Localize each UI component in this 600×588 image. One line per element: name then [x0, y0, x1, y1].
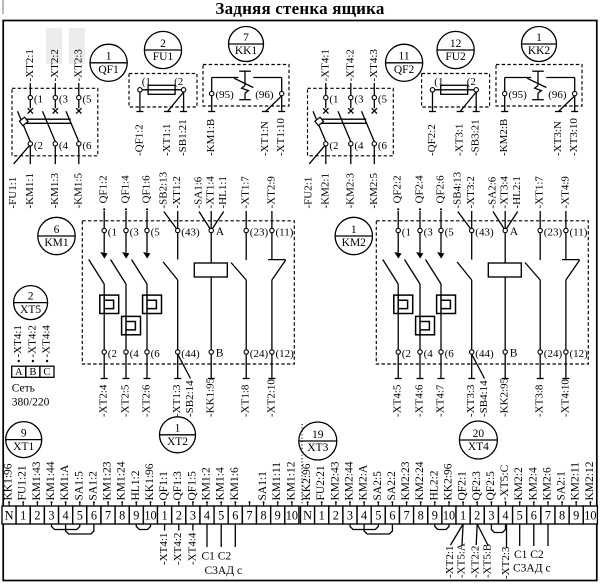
thermal relay KK1 dashed outline	[203, 65, 289, 107]
svg-text:Задняя стенка ящика: Задняя стенка ящика	[215, 0, 385, 18]
KM2 auxiliary NO contact 43-44	[457, 226, 494, 360]
jumper XT4:3-XT4:4	[491, 524, 505, 533]
KM2 lower terminal (4)	[418, 335, 433, 360]
QF1 pole 3 fixed contact (5)	[76, 94, 92, 114]
svg-text:QF1:6: QF1:6	[141, 175, 153, 204]
circuit breaker QF1 dashed outline	[12, 88, 98, 156]
svg-text:-SB1:21: -SB1:21	[177, 119, 189, 156]
svg-text:A: A	[216, 226, 225, 238]
svg-text:(5: (5	[378, 94, 388, 106]
svg-text:HL1:2: HL1:2	[130, 470, 142, 500]
svg-text:(24): (24)	[250, 348, 269, 360]
terminal strip XT2 (positional circle)	[160, 417, 196, 453]
svg-text:7: 7	[545, 509, 551, 523]
svg-text:-KM2:5: -KM2:5	[368, 173, 380, 209]
svg-text:-XT3:2: -XT3:2	[465, 176, 477, 208]
svg-text:QF2:6: QF2:6	[435, 175, 447, 204]
wires XT2:1-3 to XT4 and labels	[158, 524, 198, 565]
svg-text:12: 12	[450, 38, 462, 50]
svg-text:(11): (11)	[276, 226, 294, 238]
svg-text:-XT4:5: -XT4:5	[392, 384, 404, 417]
terminal strip XT1 / XT2	[2, 506, 299, 524]
svg-text:(1: (1	[434, 76, 443, 88]
svg-text:(23): (23)	[544, 226, 563, 238]
wire FU1:1 to QF1:2	[139, 92, 141, 112]
svg-text:(11): (11)	[570, 226, 588, 238]
svg-text:4: 4	[361, 509, 367, 523]
wire KK1:96 to XT1:10	[281, 96, 283, 112]
svg-text:(2: (2	[402, 348, 411, 360]
KM1 auxiliary NO contact 23-24	[231, 226, 268, 360]
jumper XT1:3-XT1:5	[52, 524, 80, 530]
svg-text:SA2:5: SA2:5	[372, 471, 384, 501]
svg-text:(2: (2	[108, 348, 117, 360]
svg-text:-KM1:5: -KM1:5	[72, 173, 84, 209]
svg-text:QF1:5: QF1:5	[186, 471, 198, 501]
QF1 pole 2 lower terminal (4)	[53, 140, 68, 164]
KM1 coil A-B	[194, 226, 227, 360]
KM1 main contact 5-6	[132, 226, 161, 295]
svg-text:7: 7	[243, 32, 249, 44]
svg-text:-XT4:2: -XT4:2	[172, 533, 184, 565]
svg-text:(1: (1	[402, 226, 411, 238]
svg-text:4: 4	[204, 509, 210, 523]
svg-text:С1 С2: С1 С2	[514, 549, 544, 561]
QF1 pole 1 moving blade	[18, 111, 31, 141]
svg-text:-SB4:13: -SB4:13	[451, 171, 463, 208]
svg-text:8: 8	[261, 509, 267, 523]
svg-text:2: 2	[176, 509, 182, 523]
wire FU1:2 to XT1:1	[168, 92, 184, 112]
svg-text:-XT3:1: -XT3:1	[454, 124, 466, 156]
svg-text:(6: (6	[151, 348, 161, 360]
svg-text:(44): (44)	[181, 348, 200, 360]
KM2 main contact 3-4	[405, 226, 434, 316]
svg-text:QF1:4: QF1:4	[120, 175, 132, 204]
svg-text:(2: (2	[329, 140, 338, 152]
svg-text:-SB3:21: -SB3:21	[470, 119, 482, 156]
svg-text:11: 11	[399, 51, 410, 63]
svg-text:(4: (4	[130, 348, 140, 360]
svg-text:HL2:2: HL2:2	[428, 470, 440, 500]
svg-text:N: N	[303, 509, 312, 523]
terminal strip XT3 (positional circle)	[299, 422, 337, 460]
fuse FU1 symbol with terminals (1,(2	[138, 76, 186, 94]
svg-text:2: 2	[160, 38, 166, 50]
QF1 pole 3 lower terminal (6)	[77, 140, 92, 164]
svg-text:3: 3	[488, 509, 494, 523]
terminal stubs and wire labels above strip XT3/XT4	[301, 461, 596, 506]
KM1 thermal element pole 2	[122, 316, 141, 334]
svg-text:-XT4:4: -XT4:4	[41, 325, 53, 358]
svg-text:-XT4:1: -XT4:1	[319, 49, 331, 81]
wire FU2:2 to XT3:1	[460, 92, 476, 112]
svg-text:20: 20	[473, 428, 485, 440]
labels of wires leaving QF2	[303, 173, 380, 209]
KM1 lower terminal (6)	[145, 314, 160, 361]
svg-text:5: 5	[375, 509, 381, 523]
phase designation boxes A B C	[12, 366, 54, 378]
svg-text:-XT3:10: -XT3:10	[568, 118, 580, 156]
svg-text:9: 9	[573, 509, 579, 523]
svg-text:-XT1:7: -XT1:7	[240, 176, 252, 209]
KM1 lower terminal (4)	[124, 335, 139, 360]
wires and labels entering KM1 from above	[98, 171, 278, 228]
QF1 pole 1 fixed contact (1)	[28, 94, 43, 114]
svg-text:6: 6	[531, 509, 537, 523]
svg-text:SA2:2: SA2:2	[386, 471, 398, 501]
svg-text:5: 5	[218, 509, 224, 523]
svg-text:XT1: XT1	[13, 441, 34, 453]
svg-text:-XT1:4: -XT1:4	[205, 176, 217, 209]
svg-text:FU2: FU2	[445, 51, 466, 63]
svg-text:-XT2:2: -XT2:2	[49, 49, 61, 81]
svg-text:-XT1:8: -XT1:8	[240, 384, 252, 417]
svg-text:4: 4	[502, 509, 508, 523]
svg-text:-XT4:6: -XT4:6	[414, 384, 426, 417]
svg-text:XT5: XT5	[20, 304, 41, 316]
svg-text:-SA1:6: -SA1:6	[193, 176, 205, 208]
svg-text:(2: (2	[34, 140, 43, 152]
svg-text:-XT3:4: -XT3:4	[499, 176, 511, 209]
svg-text:KM2: KM2	[342, 237, 367, 249]
thermal relay KK2 NC contact (95)-(96)	[503, 71, 577, 101]
svg-text:(3: (3	[354, 94, 364, 106]
svg-text:(43): (43)	[475, 226, 494, 238]
svg-text:KM1:24: KM1:24	[116, 461, 128, 500]
svg-text:QF1: QF1	[98, 64, 119, 76]
svg-text:-XT1:2: -XT1:2	[171, 176, 183, 208]
svg-text:-XT2:4: -XT2:4	[98, 384, 110, 417]
KM1 main contact 1-2	[89, 226, 117, 295]
svg-text:-SB2:13: -SB2:13	[157, 171, 169, 208]
svg-text:KK1:96: KK1:96	[144, 463, 156, 500]
wires XT2:4-6 to motor windings C1 C2 C3	[202, 524, 243, 577]
QF1 mechanical trip linkage bar	[19, 117, 70, 125]
svg-text:1: 1	[175, 423, 181, 435]
svg-text:1: 1	[20, 509, 26, 523]
contactor KM1 dashed outline	[82, 221, 294, 364]
jumper XT1:4-XT1:6	[66, 524, 94, 534]
svg-text:-XT4:4: -XT4:4	[186, 532, 198, 565]
svg-text:KM2:4: KM2:4	[527, 467, 539, 500]
KM2 lower terminal (2)	[396, 314, 411, 361]
svg-text:XT4: XT4	[468, 441, 489, 453]
svg-text:(96): (96)	[255, 89, 274, 101]
svg-text:1: 1	[319, 509, 325, 523]
svg-text:-XT4:10: -XT4:10	[559, 379, 571, 417]
svg-text:-XT1:7: -XT1:7	[534, 176, 546, 209]
wire KK2:95 to KM2:B	[504, 96, 506, 112]
svg-text:QF2:4: QF2:4	[414, 175, 426, 204]
svg-text:(1: (1	[142, 76, 151, 88]
svg-text:KK1: KK1	[235, 45, 258, 57]
svg-text:6: 6	[54, 224, 60, 236]
svg-text:KM1:44: KM1:44	[45, 461, 57, 500]
svg-text:-XT1:10: -XT1:10	[275, 118, 287, 156]
KM2 thermal element pole 3	[437, 295, 456, 313]
svg-text:-HL1:1: -HL1:1	[217, 176, 229, 208]
svg-text:QF2:5: QF2:5	[485, 471, 497, 501]
svg-text:KM1: KM1	[44, 237, 69, 249]
svg-text:XT2: XT2	[167, 436, 188, 448]
svg-text:QF1:3: QF1:3	[172, 471, 184, 501]
wire FU2:1 to QF2:2	[432, 92, 434, 112]
contactor KM2 (positional circle)	[335, 217, 372, 254]
QF2 pole 2 moving blade	[338, 111, 351, 141]
svg-text:(95): (95)	[216, 89, 235, 101]
wires XT4:5-7 to motor windings C1 C2 C3	[513, 524, 551, 575]
svg-text:Сеть: Сеть	[12, 383, 35, 395]
svg-text:-QF2:2: -QF2:2	[426, 124, 438, 156]
svg-text:2: 2	[333, 509, 339, 523]
QF1 pole 2 moving blade	[43, 111, 56, 141]
QF2 pole 2 fixed contact (3)	[348, 94, 364, 114]
svg-text:9: 9	[275, 509, 281, 523]
svg-text:8: 8	[418, 509, 424, 523]
svg-text:4: 4	[63, 509, 69, 523]
svg-text:QF2:3: QF2:3	[471, 471, 483, 501]
svg-text:1: 1	[536, 32, 542, 44]
svg-text:FU1: FU1	[153, 51, 174, 63]
svg-text:5: 5	[77, 509, 83, 523]
svg-text:-XT2:3: -XT2:3	[72, 49, 84, 82]
svg-text:-SB4:14: -SB4:14	[478, 380, 490, 417]
circuit breaker QF1 (positional circle)	[90, 44, 127, 81]
svg-text:B: B	[510, 348, 518, 360]
svg-text:-QF1:2: -QF1:2	[133, 124, 145, 156]
svg-text:-KM1:B: -KM1:B	[205, 119, 217, 156]
QF2 pole 3 moving blade	[362, 111, 375, 141]
labels of wires leaving KK2	[498, 118, 580, 156]
svg-text:B: B	[216, 348, 224, 360]
svg-text:(23): (23)	[250, 226, 269, 238]
svg-text:(43): (43)	[181, 226, 200, 238]
thermal relay KK2 dashed outline	[496, 65, 582, 107]
svg-text:-KM2:1: -KM2:1	[319, 173, 331, 208]
svg-text:2: 2	[474, 509, 480, 523]
svg-text:-XT3:N: -XT3:N	[552, 121, 564, 156]
svg-text:(12): (12)	[570, 348, 589, 360]
svg-text:1: 1	[162, 509, 168, 523]
svg-text:A: A	[510, 226, 519, 238]
svg-text:KM1:A: KM1:A	[59, 464, 71, 500]
QF2 pole 3 lower terminal (6)	[372, 140, 387, 164]
KM2 thermal element pole 2	[416, 316, 435, 334]
QF2 pole 1 lower terminal (2)	[324, 140, 339, 164]
svg-text:-KK2:95: -KK2:95	[499, 377, 511, 417]
jumper XT3:3-XT3:5	[350, 524, 378, 530]
svg-text:(95): (95)	[509, 89, 528, 101]
svg-text:KM1:11: KM1:11	[271, 462, 283, 501]
svg-text:(5: (5	[151, 226, 161, 238]
svg-text:(6: (6	[82, 140, 92, 152]
divider between halves	[301, 424, 303, 506]
svg-text:(5: (5	[445, 226, 455, 238]
svg-text:-XT2:1: -XT2:1	[444, 546, 456, 578]
KM1 thermal element pole 3	[143, 295, 162, 313]
svg-text:10: 10	[584, 509, 596, 523]
svg-text:KM2:6: KM2:6	[542, 467, 554, 500]
KM2 thermal element pole 1	[394, 295, 413, 313]
svg-text:(3: (3	[59, 94, 69, 106]
svg-text:SA1:2: SA1:2	[87, 471, 99, 501]
svg-text:7: 7	[246, 509, 252, 523]
svg-text:QF1:1: QF1:1	[158, 471, 170, 501]
wire FU2:2 to SB3:21	[475, 92, 477, 112]
wire KK1:96 to XT1:N	[266, 96, 282, 112]
KM2 lower terminal (6)	[439, 314, 454, 361]
svg-text:8: 8	[119, 509, 125, 523]
svg-text:-XT4:3: -XT4:3	[368, 49, 380, 82]
svg-text:(96): (96)	[548, 89, 567, 101]
svg-text:7: 7	[105, 509, 111, 523]
labels of wires leaving QF1	[7, 173, 84, 209]
svg-text:9: 9	[432, 509, 438, 523]
svg-text:6: 6	[232, 509, 238, 523]
svg-text:KM1:23: KM1:23	[102, 461, 114, 500]
svg-text:KM1:43: KM1:43	[31, 461, 43, 500]
KM2 auxiliary NC contact 11-12	[562, 226, 588, 360]
fuse FU2 dashed outline	[422, 74, 490, 108]
svg-text:(4: (4	[354, 140, 364, 152]
svg-text:-XT5:B: -XT5:B	[481, 544, 493, 578]
contactor KM1 (positional circle)	[38, 217, 75, 254]
svg-text:9: 9	[133, 509, 139, 523]
svg-text:19: 19	[312, 429, 324, 441]
labels of wires leaving KK1	[205, 118, 287, 156]
jumper XT3:9-XT3:10	[435, 524, 449, 530]
svg-text:2: 2	[34, 509, 40, 523]
svg-text:SA1:1: SA1:1	[257, 471, 269, 501]
circuit breaker QF2 dashed outline	[308, 88, 394, 156]
svg-text:SA2:1: SA2:1	[556, 471, 568, 501]
svg-text:-XT1:1: -XT1:1	[161, 124, 173, 156]
svg-text:KM1:6: KM1:6	[229, 467, 241, 500]
svg-text:(4: (4	[424, 348, 434, 360]
labels of wires leaving FU2	[426, 119, 482, 156]
svg-text:7: 7	[404, 509, 410, 523]
svg-text:-XT4:7: -XT4:7	[435, 384, 447, 417]
svg-text:(1: (1	[34, 94, 43, 106]
svg-text:FU2:21: FU2:21	[315, 465, 327, 500]
svg-text:(24): (24)	[544, 348, 563, 360]
svg-text:-FU1:1: -FU1:1	[7, 177, 19, 209]
svg-text:KM2:A: KM2:A	[358, 464, 370, 500]
svg-text:(3: (3	[130, 226, 140, 238]
svg-text:1: 1	[460, 509, 466, 523]
svg-text:-SB2:14: -SB2:14	[184, 380, 196, 417]
supply caption	[12, 383, 50, 409]
KM2 coil A-B	[488, 226, 521, 360]
KM1 auxiliary NO contact 43-44	[163, 226, 200, 360]
wires and labels entering KM2 from above	[392, 171, 572, 228]
svg-text:3: 3	[347, 509, 353, 523]
svg-text:-XT1:3: -XT1:3	[171, 384, 183, 417]
svg-text:2: 2	[28, 290, 34, 302]
QF1 pole 1 lower terminal (2)	[28, 140, 43, 164]
svg-text:QF2:1: QF2:1	[457, 471, 469, 501]
scan artifact corner mark	[2, 0, 4, 14]
svg-text:-XT5:A: -XT5:A	[456, 543, 468, 578]
svg-text:10: 10	[286, 509, 298, 523]
QF1 pole 3 moving blade	[66, 111, 79, 141]
svg-text:(6: (6	[445, 348, 455, 360]
svg-text:-XT1:N: -XT1:N	[259, 121, 271, 156]
svg-text:KM2:12: KM2:12	[584, 461, 596, 500]
svg-text:-XT2:5: -XT2:5	[120, 384, 132, 417]
svg-text:10: 10	[443, 509, 455, 523]
wire XT4:4 to -XT2:3	[500, 524, 512, 579]
KM2 main contact 5-6	[426, 226, 455, 295]
svg-text:(12): (12)	[276, 348, 295, 360]
svg-text:-XT4:9: -XT4:9	[559, 176, 571, 209]
svg-text:KM2:23: KM2:23	[400, 461, 412, 500]
circuit breaker QF2 (positional circle)	[386, 44, 423, 81]
svg-text:1: 1	[351, 224, 357, 236]
wire XT4:1 to -XT2:1 and -XT5:A	[444, 524, 468, 578]
svg-text:(6: (6	[378, 140, 388, 152]
svg-text:-XT4:2: -XT4:2	[26, 325, 38, 357]
wire KK2:96 to XT3:10	[574, 96, 576, 112]
svg-text:3: 3	[48, 509, 54, 523]
svg-text:(3: (3	[424, 226, 434, 238]
svg-text:3: 3	[190, 509, 196, 523]
wires and labels leaving KM2 at bottom	[392, 354, 572, 417]
QF2 pole 2 lower terminal (4)	[349, 140, 364, 164]
fuse FU2 (positional circle)	[437, 31, 474, 68]
KM2 auxiliary NO contact 23-24	[525, 226, 562, 360]
svg-text:-SA2:6: -SA2:6	[487, 176, 499, 208]
svg-text:QF2: QF2	[394, 64, 415, 76]
QF2 pole 1 fixed contact (1)	[323, 94, 338, 114]
svg-text:(1: (1	[329, 94, 338, 106]
thermal relay KK1 NC contact (95)-(96)	[210, 71, 284, 101]
KM1 thermal element pole 1	[100, 295, 119, 313]
supply wires -XT4:1 -XT4:2 -XT4:4 to phases A B C	[12, 325, 52, 363]
svg-text:QF1:2: QF1:2	[98, 175, 110, 203]
svg-text:-KM1:3: -KM1:3	[49, 173, 61, 209]
svg-text:С3АД с: С3АД с	[205, 565, 243, 577]
thermal relay KK1 (positional circle)	[229, 27, 264, 62]
svg-text:KK2:96: KK2:96	[301, 463, 313, 500]
svg-text:KM2:44: KM2:44	[344, 461, 356, 500]
terminal stubs and wire labels above strip XT1/XT2	[3, 461, 298, 506]
wire KK2:96 to XT3:N	[559, 96, 575, 112]
svg-text:-XT3:3: -XT3:3	[465, 384, 477, 417]
KM2 main contact 1-2	[383, 226, 411, 295]
svg-text:KM2:43: KM2:43	[329, 461, 341, 500]
svg-text:9: 9	[21, 427, 27, 439]
svg-text:-KM2:B: -KM2:B	[498, 119, 510, 156]
svg-text:8: 8	[559, 509, 565, 523]
QF2 pole 1 moving blade	[313, 111, 326, 141]
svg-text:XT3: XT3	[307, 442, 328, 454]
svg-text:C: C	[43, 367, 50, 378]
svg-text:QF2:2: QF2:2	[392, 175, 404, 203]
svg-text:SA1:5: SA1:5	[73, 471, 85, 501]
svg-text:KK2: KK2	[528, 45, 551, 57]
svg-text:KM2:2: KM2:2	[513, 467, 525, 500]
terminal strip XT1 (positional circle)	[6, 422, 42, 458]
svg-text:(44): (44)	[475, 348, 494, 360]
svg-text:-XT2:6: -XT2:6	[141, 384, 153, 417]
svg-text:KM1:2: KM1:2	[201, 467, 213, 500]
terminal strip XT5 (positional circle)	[14, 286, 48, 320]
svg-text:-XT3:8: -XT3:8	[534, 384, 546, 417]
svg-text:-FU2:1: -FU2:1	[303, 177, 315, 209]
svg-text:1: 1	[106, 51, 112, 63]
